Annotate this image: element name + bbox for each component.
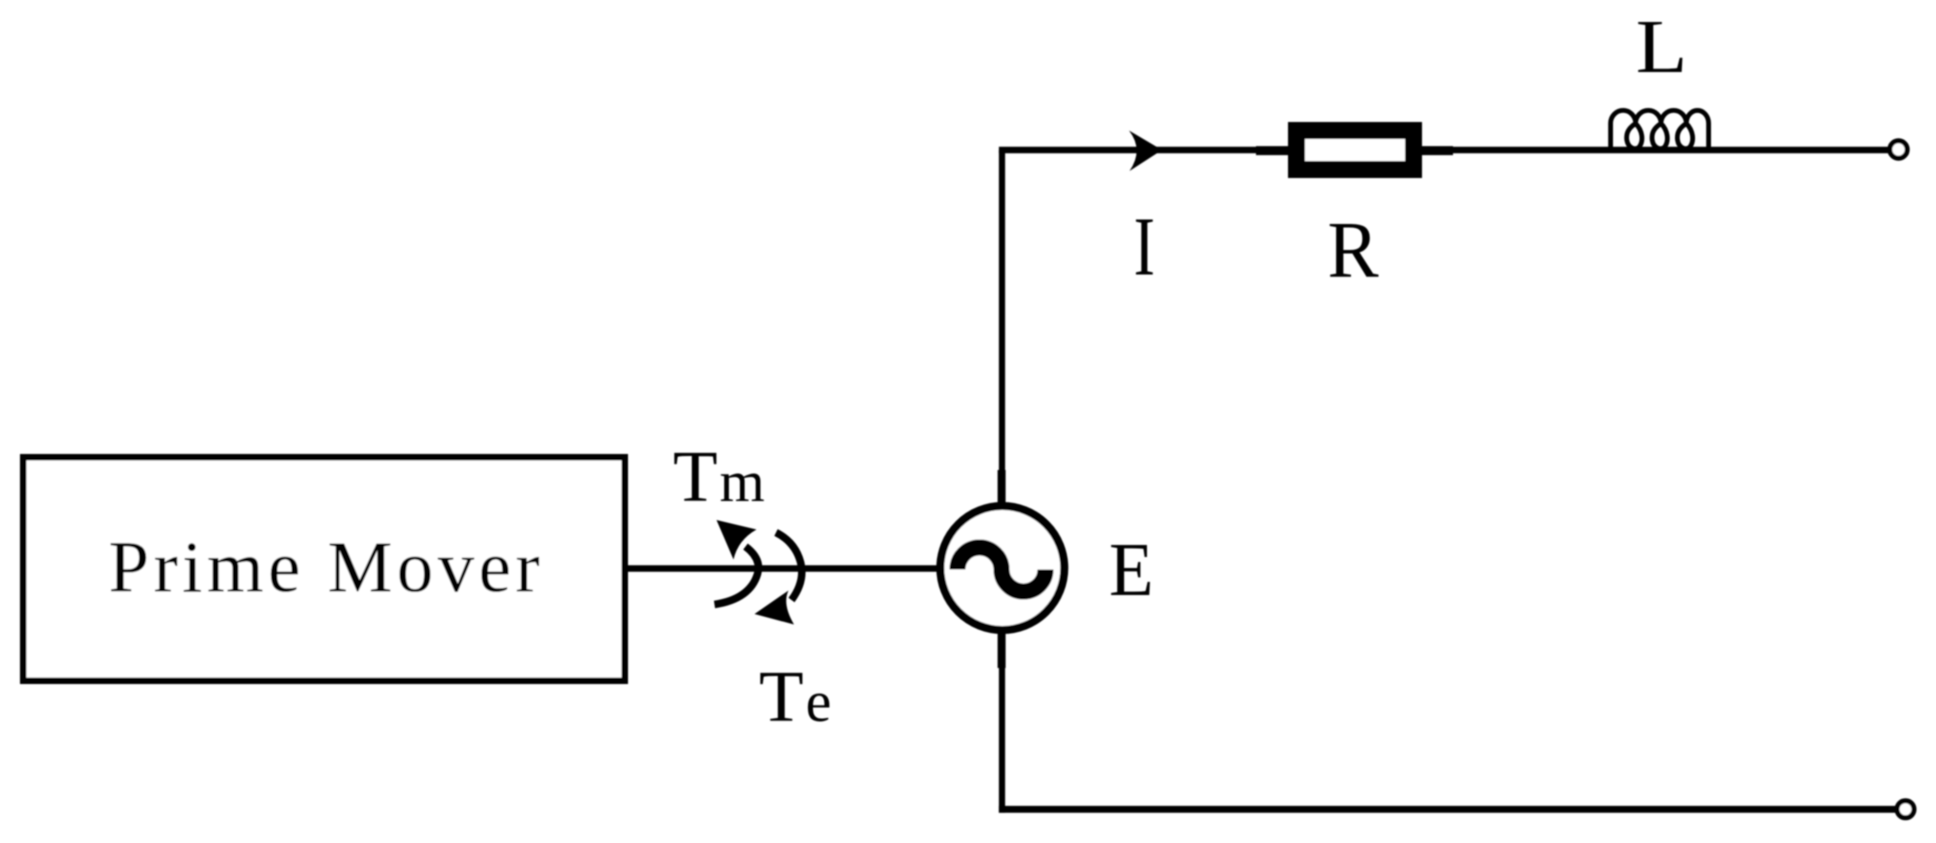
svg-text:Prime Mover: Prime Mover xyxy=(108,527,544,608)
svg-text:L: L xyxy=(1636,5,1688,89)
svg-text:I: I xyxy=(1134,202,1155,294)
shaft wire xyxy=(628,565,938,571)
torque arrow Tm xyxy=(715,520,759,605)
svg-text:R: R xyxy=(1328,205,1380,294)
AC source sine symbol xyxy=(958,548,1046,592)
current arrow I xyxy=(1129,131,1162,172)
resistor lead left xyxy=(1256,146,1292,155)
svg-text:Tm: Tm xyxy=(673,436,765,517)
wire vertical bottom xyxy=(999,633,1005,813)
inductor L coil xyxy=(1611,110,1709,151)
resistor lead right xyxy=(1418,146,1453,155)
svg-text:Te: Te xyxy=(759,656,831,737)
terminal top right xyxy=(1890,141,1907,158)
wire top rail xyxy=(999,147,1889,154)
terminal bottom right xyxy=(1897,801,1914,818)
AC source E circle xyxy=(940,506,1064,630)
svg-text:E: E xyxy=(1109,529,1154,613)
wire vertical top xyxy=(999,150,1005,503)
wire nub above circle xyxy=(998,470,1006,503)
resistor R xyxy=(1297,131,1414,170)
wire bottom rail xyxy=(999,806,1895,813)
wire nub below circle xyxy=(998,633,1006,668)
torque arrow Te xyxy=(755,533,802,625)
prime mover block xyxy=(23,457,625,681)
